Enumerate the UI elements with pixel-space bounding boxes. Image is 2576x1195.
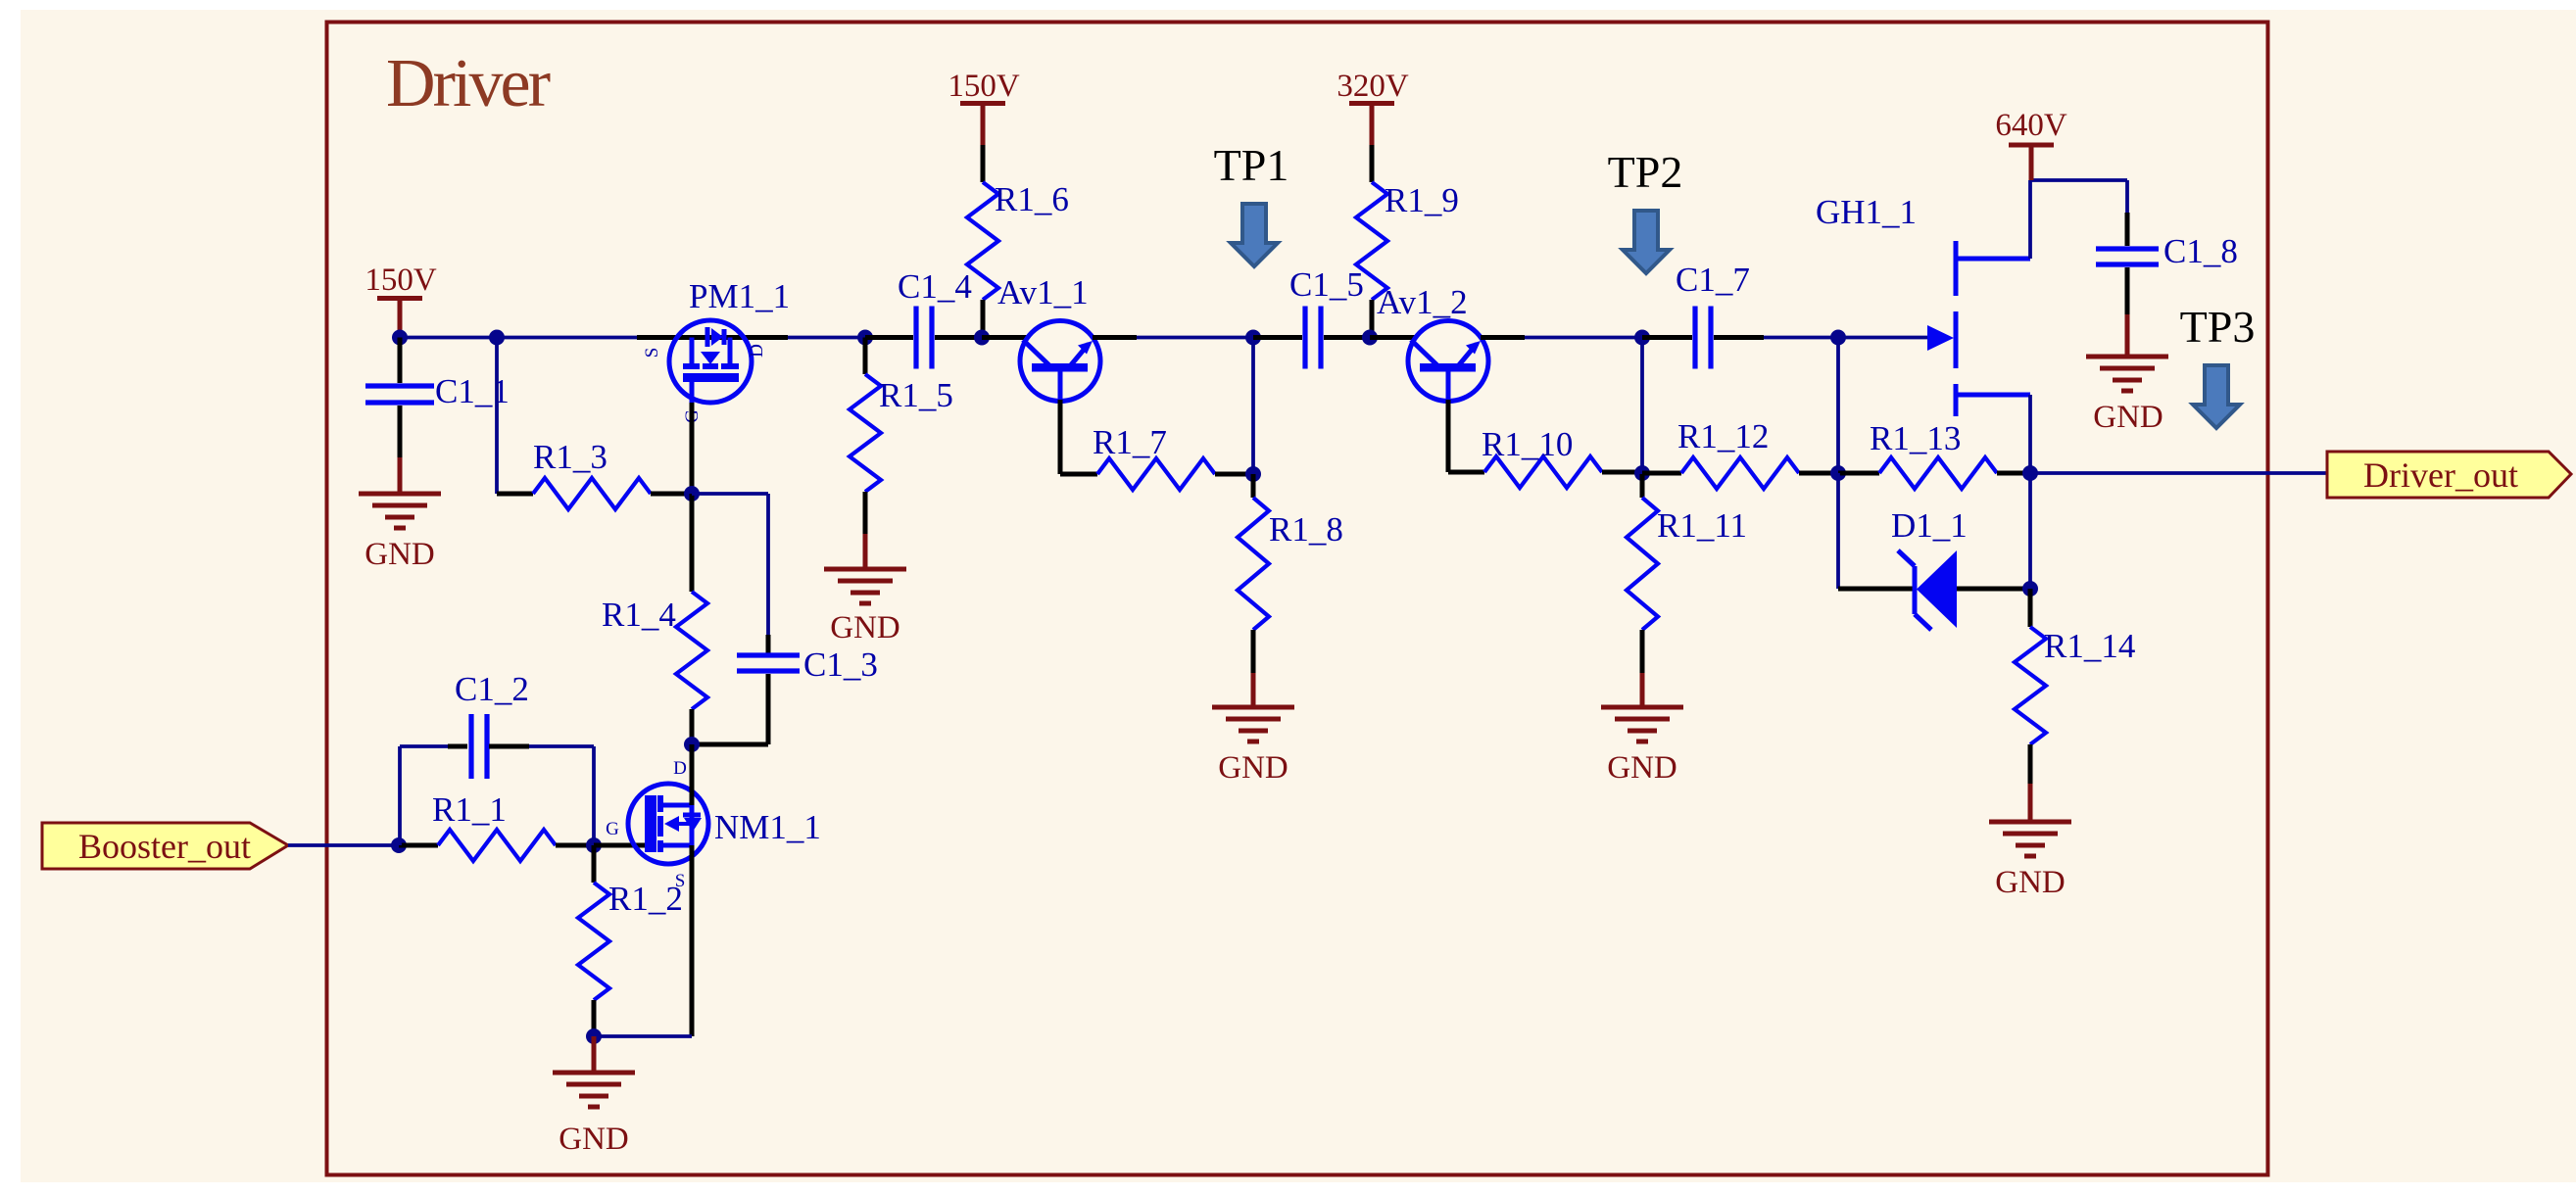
node R1_10/R1_11/R1_12 [1634,465,1650,481]
resistor R1_14 [2015,589,2135,784]
ground GND under R1_8 [1212,673,1294,786]
node R1_7/R1_8 [1245,466,1261,482]
resistor R1_10 [1482,425,1642,488]
wire to Driver_out [2030,471,2327,475]
svg-text:320V: 320V [1337,69,1409,104]
node C1_1 branch [489,330,505,346]
resistor R1_2 [578,845,683,1036]
svg-text:C1_7: C1_7 [1676,261,1750,299]
wire Av1_2 collector to TP2 node [1525,336,1642,340]
node source/R1_2 [586,1028,602,1044]
svg-text:R1_14: R1_14 [2044,627,2135,665]
capacitor C1_1 [365,338,510,493]
node NM1_1 drain [684,737,700,752]
node Booster/R1_1/C1_2 [391,837,407,853]
ground GND under R1_5 [824,534,906,645]
node C1_7 right [1830,330,1846,346]
transistor Av1_2 [1370,283,1525,402]
svg-text:R1_3: R1_3 [533,438,608,476]
power 640V [1995,108,2067,180]
node gate/R1_3/R1_4 [684,486,700,502]
wire C1_2 right leg [489,746,594,845]
resistor R1_12 [1642,417,1838,489]
svg-text:D: D [673,758,687,779]
wire PM1_1 drain to node [752,335,865,340]
port Driver_out [2327,452,2571,498]
test point TP2 [1608,147,1683,273]
svg-text:R1_9: R1_9 [1385,181,1459,219]
ground GND under R1_11 [1601,673,1683,786]
resistor R1_7 [1093,423,1253,490]
svg-text:G: G [606,819,619,839]
svg-text:150V: 150V [948,69,1020,104]
node at 150V/C1_1 [392,330,408,346]
svg-text:R1_12: R1_12 [1677,417,1769,455]
wire TP1 node down [1251,338,1255,475]
capacitor C1_2 [455,670,529,779]
svg-text:GND: GND [559,1122,629,1157]
ground GND under C1_8 [2086,314,2168,435]
wire C1_3 top branch [692,494,768,653]
wire Av1_1 base down [1060,400,1097,474]
svg-text:D1_1: D1_1 [1891,506,1968,545]
wire Av1_2 base down [1448,400,1484,472]
diode D1_1 [1891,506,1968,630]
svg-text:R1_13: R1_13 [1870,419,1961,457]
svg-text:GH1_1: GH1_1 [1816,193,1917,231]
capacitor C1_7 [1642,261,1838,369]
svg-text:GND: GND [365,537,435,572]
wire gate to NM1_1 [594,843,649,848]
wire NM1_1 source [594,845,692,1036]
node NM1_1 gate [586,837,602,853]
svg-text:C1_3: C1_3 [803,645,878,684]
node C1_4/R1_6 [974,330,990,346]
svg-text:PM1_1: PM1_1 [689,277,790,315]
wire NM1_1 drain [690,744,695,805]
wire PM1_1 gate [690,382,695,494]
svg-text:640V: 640V [1995,108,2067,143]
wire C1_3 bottom to drain node [692,742,768,747]
svg-text:R1_4: R1_4 [602,596,676,634]
svg-text:R1_11: R1_11 [1657,506,1747,545]
resistor R1_8 [1238,474,1343,673]
wire Av1_1 collector to TP1 node [1137,336,1253,340]
svg-text:C1_8: C1_8 [2163,232,2238,270]
svg-text:GND: GND [1218,750,1288,786]
svg-text:D: D [747,344,767,358]
node TP1 [1245,330,1261,346]
svg-text:Av1_1: Av1_1 [997,273,1089,311]
port Booster_out [42,823,288,869]
transistor PM1_1 [642,277,790,423]
svg-text:R1_8: R1_8 [1269,510,1343,549]
svg-text:R1_1: R1_1 [432,790,507,829]
power 150V (mid) [948,69,1020,182]
svg-text:Booster_out: Booster_out [78,827,251,866]
svg-text:TP3: TP3 [2180,302,2256,352]
transistor NM1_1 [606,758,821,891]
node R1_13/GH source [2022,465,2038,481]
ground GND under R1_14 [1989,784,2071,900]
svg-text:NM1_1: NM1_1 [714,808,821,846]
svg-text:C1_5: C1_5 [1289,265,1364,304]
wire main rail left [400,336,637,340]
svg-text:150V: 150V [365,263,437,298]
node R1_12/R1_13/D1_1 [1830,465,1846,481]
Driver block border [327,23,2268,1175]
Driver title [386,46,551,121]
wire node down to anode [2028,473,2032,589]
wire D1_1 cathode branch [1838,473,1913,589]
ground GND under C1_1 [359,494,441,572]
node D1_1/R1_14 [2022,581,2038,597]
power 150V (left) [365,263,437,337]
svg-text:R1_5: R1_5 [879,376,953,414]
wire D1_1 anode [1957,587,2030,592]
resistor R1_3 [533,438,692,509]
resistor R1_11 [1627,474,1747,673]
wire GH1_1 source down [2028,395,2032,473]
svg-text:Driver: Driver [386,46,551,121]
transistor GH1_1 [1816,193,2030,416]
capacitor C1_8 [2096,180,2238,314]
resistor R1_13 [1838,419,2030,489]
node C1_5/R1_9 [1362,330,1378,346]
wire C1_2 left leg [400,746,467,845]
svg-text:R1_7: R1_7 [1093,423,1167,461]
svg-text:C1_4: C1_4 [898,267,972,306]
svg-text:GND: GND [830,610,900,645]
wire GH1_1 drain to 640V [2030,180,2127,259]
transistor Av1_1 [982,273,1137,402]
wire rail to PM1_1 source [637,335,669,340]
svg-text:GND: GND [2093,400,2163,435]
wire TP2 node down [1640,338,1644,475]
svg-text:S: S [642,348,662,358]
svg-text:Driver_out: Driver_out [2363,455,2518,495]
ground GND under NM1_1 [553,1036,635,1157]
capacitor C1_5 [1253,265,1370,369]
power 320V [1337,69,1409,182]
resistor R1_6 [967,180,1069,338]
test point TP3 [2180,302,2256,428]
capacitor C1_3 [737,645,878,744]
svg-text:TP2: TP2 [1608,147,1683,197]
svg-text:TP1: TP1 [1214,140,1289,190]
svg-text:GND: GND [1607,750,1677,786]
svg-text:R1_6: R1_6 [995,180,1069,218]
wire C1_7 node down [1836,338,1840,474]
resistor R1_9 [1356,181,1459,338]
wire Booster_out to node [288,843,399,847]
node TP2 [1634,330,1650,346]
node rail/R1_5 [857,330,873,346]
svg-text:R1_10: R1_10 [1482,425,1573,463]
capacitor C1_4 [865,267,982,369]
svg-text:C1_2: C1_2 [455,670,529,708]
svg-text:R1_2: R1_2 [608,880,683,918]
svg-text:Av1_2: Av1_2 [1377,283,1468,321]
resistor R1_1 [399,790,594,861]
svg-text:GND: GND [1995,865,2066,900]
wire node to R1_3 [497,338,533,495]
wire TP2 node to GH1_1 gate [1838,336,1927,340]
resistor R1_4 [602,494,707,744]
resistor R1_5 [850,338,953,535]
test point TP1 [1214,140,1289,266]
